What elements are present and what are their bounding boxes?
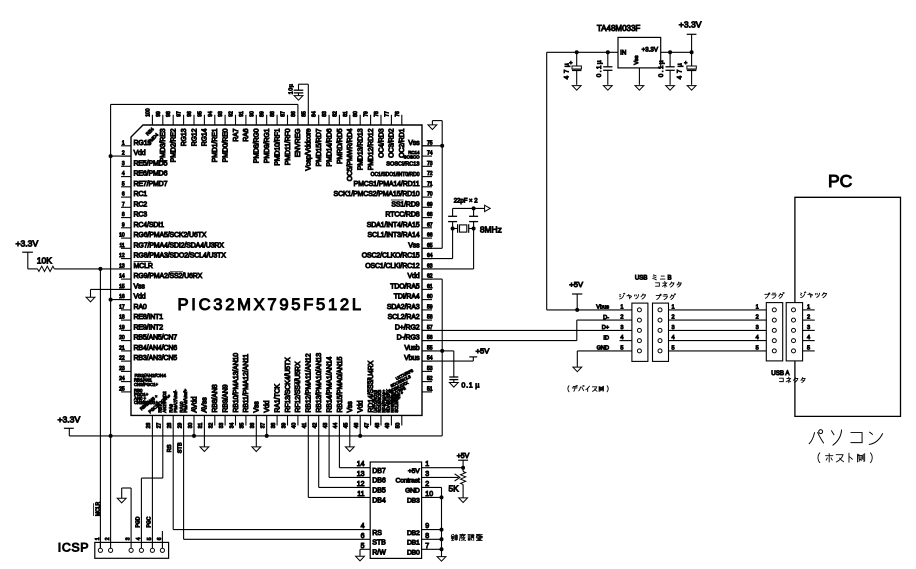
svg-text:87: 87 xyxy=(281,111,287,117)
svg-text:47µ: 47µ xyxy=(677,61,684,80)
svg-text:+3.3V: +3.3V xyxy=(16,238,39,248)
svg-text:OC2/RD1: OC2/RD1 xyxy=(399,128,406,158)
svg-text:82: 82 xyxy=(332,111,338,117)
svg-text:PMD11/RF0: PMD11/RF0 xyxy=(285,128,292,165)
svg-text:32: 32 xyxy=(209,423,215,429)
svg-text:PMA6/Vref+: PMA6/Vref+ xyxy=(183,389,188,413)
svg-text:OC5/PMWR/RD4: OC5/PMWR/RD4 xyxy=(347,128,354,181)
svg-text:31: 31 xyxy=(198,423,204,429)
svg-text:27: 27 xyxy=(157,423,163,429)
svg-text:25: 25 xyxy=(119,387,125,393)
svg-text:+: + xyxy=(684,61,687,67)
svg-text:46: 46 xyxy=(354,423,360,429)
svg-text:0.1µ: 0.1µ xyxy=(658,59,665,77)
svg-text:RB4/AN4/CN6: RB4/AN4/CN6 xyxy=(134,345,178,352)
svg-text:9: 9 xyxy=(122,222,125,228)
svg-text:29: 29 xyxy=(177,423,183,429)
svg-text:PIC32MX795F512L: PIC32MX795F512L xyxy=(178,295,364,314)
svg-text:49: 49 xyxy=(385,423,391,429)
svg-text:OC4/RD3: OC4/RD3 xyxy=(378,128,385,158)
svg-text:5K: 5K xyxy=(449,483,460,493)
svg-text:Vcap/Vddcore: Vcap/Vddcore xyxy=(306,128,313,170)
svg-text:28: 28 xyxy=(167,423,173,429)
svg-text:AVdd: AVdd xyxy=(191,396,198,412)
svg-text:SOSCI/RC13: SOSCI/RC13 xyxy=(386,162,419,168)
svg-text:8: 8 xyxy=(122,212,125,218)
svg-text:DB5: DB5 xyxy=(372,488,386,495)
svg-text:1: 1 xyxy=(672,304,675,310)
svg-text:95: 95 xyxy=(197,111,203,117)
svg-text:Vdd: Vdd xyxy=(134,150,146,157)
svg-text:RC3: RC3 xyxy=(134,212,148,219)
svg-text:RS: RS xyxy=(372,530,382,537)
svg-text:1: 1 xyxy=(95,537,101,540)
svg-text:33: 33 xyxy=(219,423,225,429)
svg-text:D+/RG2: D+/RG2 xyxy=(395,325,420,332)
svg-text:SCL2/RA2: SCL2/RA2 xyxy=(388,314,420,321)
svg-text:DB3: DB3 xyxy=(407,498,420,505)
svg-text:2: 2 xyxy=(756,315,759,321)
svg-text:RA7: RA7 xyxy=(233,128,240,141)
svg-text:4: 4 xyxy=(807,335,810,341)
svg-text:DB7: DB7 xyxy=(372,468,386,475)
svg-text:PMD13/RD13: PMD13/RD13 xyxy=(358,128,365,170)
svg-text:USB: USB xyxy=(635,275,648,282)
svg-text:35: 35 xyxy=(240,423,246,429)
svg-text:RB8/AN8: RB8/AN8 xyxy=(212,384,219,412)
svg-text:36: 36 xyxy=(250,423,256,429)
svg-text:DB2: DB2 xyxy=(407,530,420,537)
svg-text:58: 58 xyxy=(427,315,433,321)
svg-text:TDI/RA4: TDI/RA4 xyxy=(394,294,420,301)
svg-text:RE7/PMD7: RE7/PMD7 xyxy=(134,181,168,188)
svg-text:RB9/AN9: RB9/AN9 xyxy=(222,384,229,412)
svg-text:60: 60 xyxy=(427,294,433,300)
svg-text:24: 24 xyxy=(119,376,125,382)
svg-text:RS: RS xyxy=(167,444,173,452)
svg-text:5: 5 xyxy=(620,345,623,351)
svg-text:RG6/PMA5/SCK2/U6TX: RG6/PMA5/SCK2/U6TX xyxy=(134,232,207,239)
svg-text:44: 44 xyxy=(333,423,339,429)
svg-text:RB14/PMA1/AN14: RB14/PMA1/AN14 xyxy=(326,356,333,412)
svg-text:Contrast: Contrast xyxy=(396,478,420,485)
svg-text:50: 50 xyxy=(396,423,402,429)
svg-text:Vss: Vss xyxy=(254,401,261,413)
svg-text:OSC2/CLKO/RC15: OSC2/CLKO/RC15 xyxy=(362,253,420,260)
svg-text:RA1/TCK: RA1/TCK xyxy=(274,384,281,413)
svg-text:RE6/PMD6: RE6/PMD6 xyxy=(134,171,168,178)
svg-text:OC3/RD2: OC3/RD2 xyxy=(389,128,396,158)
svg-text:RG12: RG12 xyxy=(191,128,198,146)
svg-text:PMD12/RD12: PMD12/RD12 xyxy=(368,128,375,170)
svg-text:51: 51 xyxy=(427,387,433,393)
svg-text:39: 39 xyxy=(281,423,287,429)
svg-text:43: 43 xyxy=(323,423,329,429)
svg-text:SCK1/PMCS2/PMA15/RD10: SCK1/PMCS2/PMA15/RD10 xyxy=(334,191,420,198)
svg-text:1: 1 xyxy=(620,304,623,310)
svg-text:D+: D+ xyxy=(602,325,609,331)
svg-text:18: 18 xyxy=(119,315,125,321)
svg-text:RE9/INT2: RE9/INT2 xyxy=(134,325,164,332)
svg-text:RB11/PMA12/AN11: RB11/PMA12/AN11 xyxy=(243,354,250,413)
svg-text:4: 4 xyxy=(672,335,675,341)
svg-text:3: 3 xyxy=(807,325,810,331)
svg-text:98: 98 xyxy=(166,111,172,117)
svg-text:37: 37 xyxy=(261,423,267,429)
svg-text:SS1/RD9: SS1/RD9 xyxy=(391,201,419,208)
svg-text:RB15/PMA0/AN15: RB15/PMA0/AN15 xyxy=(337,356,344,412)
svg-text:STB: STB xyxy=(372,540,386,547)
svg-text:12: 12 xyxy=(119,253,125,259)
svg-text:RC1: RC1 xyxy=(134,191,148,198)
svg-text:83: 83 xyxy=(322,111,328,117)
svg-text:SCL1/INT3/RA14: SCL1/INT3/RA14 xyxy=(368,232,420,239)
svg-text:AVss: AVss xyxy=(202,397,209,413)
svg-text:92: 92 xyxy=(229,111,235,117)
svg-text:91: 91 xyxy=(239,111,245,117)
svg-text:PMD1/RE1: PMD1/RE1 xyxy=(212,128,219,162)
svg-text:B: B xyxy=(668,275,672,282)
svg-text:PMD2/RE2: PMD2/RE2 xyxy=(171,128,178,162)
svg-text:µ: µ xyxy=(475,381,479,390)
svg-text:67: 67 xyxy=(427,222,433,228)
svg-text:20: 20 xyxy=(119,335,125,341)
svg-text:5: 5 xyxy=(807,345,810,351)
svg-text:42: 42 xyxy=(313,423,319,429)
svg-text:PMD8/RG0: PMD8/RG0 xyxy=(254,128,261,163)
svg-text:94: 94 xyxy=(208,111,214,117)
svg-text:PMD9/RG1: PMD9/RG1 xyxy=(264,128,271,163)
svg-text:89: 89 xyxy=(260,111,266,117)
svg-text:Vss: Vss xyxy=(347,401,354,413)
svg-text:Vss: Vss xyxy=(634,55,640,65)
svg-text:+3.3V: +3.3V xyxy=(58,414,81,424)
svg-text:6: 6 xyxy=(157,537,163,540)
svg-text:RF13/SCK4/U5TX: RF13/SCK4/U5TX xyxy=(285,357,292,413)
svg-text:48: 48 xyxy=(375,423,381,429)
svg-text:47µ: 47µ xyxy=(564,61,571,80)
svg-text:88: 88 xyxy=(270,111,276,117)
svg-text:96: 96 xyxy=(187,111,193,117)
svg-text:8MHz: 8MHz xyxy=(480,225,502,235)
svg-text:76: 76 xyxy=(395,111,401,117)
svg-text:79: 79 xyxy=(364,111,370,117)
svg-text:97: 97 xyxy=(177,111,183,117)
svg-text:81: 81 xyxy=(343,111,349,117)
svg-text:1: 1 xyxy=(807,304,810,310)
svg-text:RG7/PMA4/SDI2/SDA4/U3RX: RG7/PMA4/SDI2/SDA4/U3RX xyxy=(134,242,225,249)
svg-text:RC4/SDI1: RC4/SDI1 xyxy=(134,222,165,229)
svg-text:14: 14 xyxy=(119,274,125,280)
svg-text:DB4: DB4 xyxy=(372,498,386,505)
svg-text:DB6: DB6 xyxy=(372,478,386,485)
svg-text:USB A: USB A xyxy=(771,370,790,377)
svg-text:3: 3 xyxy=(620,325,623,331)
svg-text:RE8/INT1: RE8/INT1 xyxy=(134,314,164,321)
svg-text:34: 34 xyxy=(229,423,235,429)
svg-text:5: 5 xyxy=(756,345,759,351)
svg-text:SDA2/RA3: SDA2/RA3 xyxy=(387,304,420,311)
svg-text:+5V: +5V xyxy=(457,453,470,460)
svg-text:1: 1 xyxy=(122,140,125,146)
svg-text:26: 26 xyxy=(146,423,152,429)
svg-text:77: 77 xyxy=(384,111,390,117)
svg-text:OSC1/CLKI/RC12: OSC1/CLKI/RC12 xyxy=(365,263,420,270)
svg-text:99: 99 xyxy=(156,111,162,117)
svg-text:4: 4 xyxy=(756,335,759,341)
svg-text:90: 90 xyxy=(249,111,255,117)
svg-text:PMD10/RF1: PMD10/RF1 xyxy=(274,128,281,165)
svg-text:PMA7/Vref-: PMA7/Vref- xyxy=(173,390,178,413)
svg-text:RG13: RG13 xyxy=(181,128,188,146)
svg-text:85: 85 xyxy=(301,111,307,117)
svg-text:RG8/PMA3/SDO2/SCL4/U3TX: RG8/PMA3/SDO2/SCL4/U3TX xyxy=(134,253,227,260)
svg-text:47: 47 xyxy=(364,423,370,429)
svg-text:RB5/AN5/CN7: RB5/AN5/CN7 xyxy=(134,335,178,342)
svg-text:4: 4 xyxy=(620,335,623,341)
svg-text:ICSP: ICSP xyxy=(58,540,89,554)
svg-text:AN7/PGD2: AN7/PGD2 xyxy=(162,391,167,413)
svg-text:Vusb: Vusb xyxy=(404,345,419,352)
svg-text:100: 100 xyxy=(145,108,151,117)
svg-text:69: 69 xyxy=(427,202,433,208)
svg-text:2: 2 xyxy=(620,315,623,321)
svg-text:2: 2 xyxy=(807,315,810,321)
svg-text:RG9/PMA2/SS2/U6RX: RG9/PMA2/SS2/U6RX xyxy=(134,273,203,280)
svg-text:23: 23 xyxy=(119,366,125,372)
svg-text:RC2: RC2 xyxy=(134,201,148,208)
svg-text:86: 86 xyxy=(291,111,297,117)
svg-text:70: 70 xyxy=(427,192,433,198)
svg-text:+5V: +5V xyxy=(476,347,491,356)
svg-text:78: 78 xyxy=(374,111,380,117)
svg-text:Vdd: Vdd xyxy=(407,273,419,280)
svg-text:DB0: DB0 xyxy=(407,550,420,557)
svg-text:D-: D- xyxy=(603,315,609,321)
svg-text:STB: STB xyxy=(177,442,183,453)
svg-text:RB12/PMA11/AN12: RB12/PMA11/AN12 xyxy=(306,353,313,412)
svg-text:5: 5 xyxy=(672,345,675,351)
svg-text:Vbus: Vbus xyxy=(596,305,609,311)
svg-text:21: 21 xyxy=(119,346,125,352)
svg-text:72: 72 xyxy=(427,171,433,177)
svg-text:Vdd: Vdd xyxy=(264,400,271,412)
svg-text:SCL5/U2TX: SCL5/U2TX xyxy=(394,390,399,413)
svg-text:RA6: RA6 xyxy=(243,128,250,141)
svg-text:GND: GND xyxy=(405,488,420,495)
svg-text:71: 71 xyxy=(427,181,433,187)
svg-text:59: 59 xyxy=(427,305,433,311)
svg-text:Vss: Vss xyxy=(134,284,146,291)
svg-text:RG14: RG14 xyxy=(202,128,209,146)
svg-text:PMRD/RD5: PMRD/RD5 xyxy=(337,128,344,164)
svg-text:IN: IN xyxy=(620,49,626,56)
svg-text:10K: 10K xyxy=(37,255,53,265)
svg-text:10: 10 xyxy=(119,233,125,239)
svg-text:SDA1/INT4/RA15: SDA1/INT4/RA15 xyxy=(367,222,420,229)
svg-text:GND: GND xyxy=(597,346,609,352)
svg-text:19: 19 xyxy=(119,325,125,331)
svg-text:+5V: +5V xyxy=(408,468,420,475)
svg-text:3: 3 xyxy=(756,325,759,331)
svg-text:5: 5 xyxy=(122,181,125,187)
svg-text:38: 38 xyxy=(271,423,277,429)
svg-text:73: 73 xyxy=(427,161,433,167)
svg-text:66: 66 xyxy=(427,233,433,239)
svg-text:84: 84 xyxy=(312,111,318,117)
svg-text:0.1: 0.1 xyxy=(461,381,473,390)
svg-text:17: 17 xyxy=(119,305,125,311)
svg-text:RA0: RA0 xyxy=(134,304,147,311)
svg-text:6: 6 xyxy=(122,192,125,198)
svg-text:4: 4 xyxy=(122,171,125,177)
svg-text:3: 3 xyxy=(672,325,675,331)
svg-text:RF12/SS4/U5RX: RF12/SS4/U5RX xyxy=(295,361,302,412)
svg-text:MCLR: MCLR xyxy=(134,263,153,270)
svg-text:PMD0/RE0: PMD0/RE0 xyxy=(222,128,229,162)
svg-text:74: 74 xyxy=(427,151,433,157)
svg-text:52: 52 xyxy=(427,376,433,382)
svg-text:Vss: Vss xyxy=(408,140,420,147)
svg-text:RB10/PMA13/AN10: RB10/PMA13/AN10 xyxy=(233,353,240,413)
svg-text:PMD14/RD6: PMD14/RD6 xyxy=(326,128,333,166)
svg-text:Vdd: Vdd xyxy=(134,294,146,301)
svg-text:DB1: DB1 xyxy=(407,540,420,547)
svg-text:+3.3V: +3.3V xyxy=(679,20,702,30)
svg-text:30: 30 xyxy=(188,423,194,429)
svg-text:Vss: Vss xyxy=(408,242,420,249)
svg-text:TA48M033F: TA48M033F xyxy=(597,24,641,33)
svg-text:22: 22 xyxy=(119,356,125,362)
svg-text:Vdd: Vdd xyxy=(358,400,365,412)
svg-text:+3.3V: +3.3V xyxy=(642,46,659,53)
svg-text:1: 1 xyxy=(756,304,759,310)
svg-text:PGC: PGC xyxy=(147,516,153,527)
svg-text:2: 2 xyxy=(672,315,675,321)
svg-text:Vbus: Vbus xyxy=(404,355,420,362)
svg-text:TDO/RA5: TDO/RA5 xyxy=(390,284,420,291)
svg-text:68: 68 xyxy=(427,212,433,218)
svg-text:53: 53 xyxy=(427,366,433,372)
svg-text:+5V: +5V xyxy=(569,280,584,289)
svg-text:45: 45 xyxy=(344,423,350,429)
svg-text:0.1µ: 0.1µ xyxy=(596,59,603,77)
svg-text:RB13/PMA10/AN13: RB13/PMA10/AN13 xyxy=(316,353,323,413)
svg-text:ID: ID xyxy=(603,335,609,341)
svg-text:PMCS1/PMA14/RD11: PMCS1/PMA14/RD11 xyxy=(354,181,420,188)
svg-text:ENVREG: ENVREG xyxy=(295,129,302,158)
svg-text:40: 40 xyxy=(292,423,298,429)
svg-text:80: 80 xyxy=(353,111,359,117)
svg-text:OC1/SDO1/INT0/RD0: OC1/SDO1/INT0/RD0 xyxy=(371,172,420,178)
svg-text:61: 61 xyxy=(427,284,433,290)
svg-text:7: 7 xyxy=(122,202,125,208)
svg-text:D-/RG3: D-/RG3 xyxy=(397,335,420,342)
svg-text:22pF × 2: 22pF × 2 xyxy=(454,199,479,205)
svg-text:MCLR: MCLR xyxy=(95,501,101,516)
svg-text:3: 3 xyxy=(122,161,125,167)
svg-text:PGD: PGD xyxy=(136,516,142,527)
svg-text:CN3/PGC1+: CN3/PGC1+ xyxy=(134,382,158,387)
svg-text:11: 11 xyxy=(119,243,124,249)
svg-text:93: 93 xyxy=(218,111,224,117)
svg-text:PMD3/RE3: PMD3/RE3 xyxy=(160,128,167,162)
svg-text:41: 41 xyxy=(302,423,308,429)
svg-text:PC: PC xyxy=(828,171,852,191)
svg-text:RB3/AN3/CN5: RB3/AN3/CN5 xyxy=(134,355,178,362)
svg-text:R/W: R/W xyxy=(372,550,386,557)
svg-text:PMD15/RD7: PMD15/RD7 xyxy=(316,128,323,166)
svg-text:10µ: 10µ xyxy=(289,84,295,95)
svg-text:RTCC/RD8: RTCC/RD8 xyxy=(385,212,419,219)
